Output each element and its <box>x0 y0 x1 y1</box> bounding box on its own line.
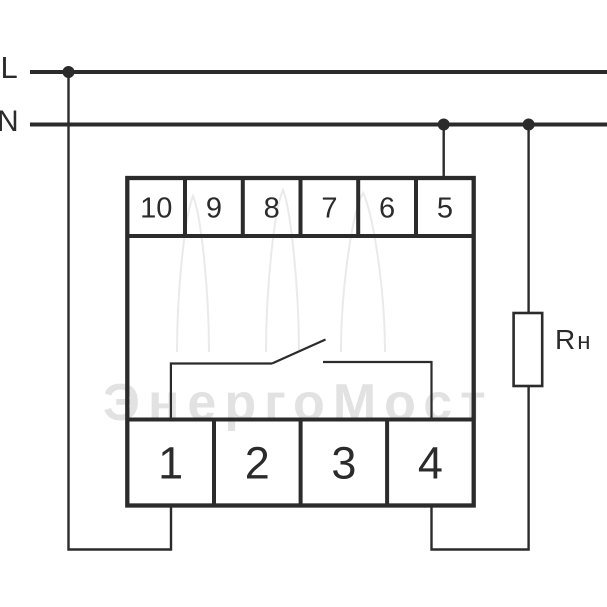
svg-text:7: 7 <box>321 193 337 225</box>
svg-text:6: 6 <box>379 193 395 225</box>
wire from N dot to resistor top <box>527 125 529 314</box>
svg-text:N: N <box>0 105 19 138</box>
wire from resistor bottom to terminal 4 <box>432 386 529 550</box>
watermark logo shapes <box>177 190 385 352</box>
wire N line <box>30 123 607 127</box>
relay contact right lead <box>323 362 432 420</box>
svg-text:Rн: Rн <box>555 324 593 355</box>
bottom terminal dividers <box>214 420 387 506</box>
device outline <box>127 178 473 506</box>
svg-text:10: 10 <box>140 193 172 225</box>
svg-text:8: 8 <box>264 193 280 225</box>
top terminal dividers <box>185 178 416 236</box>
svg-text:3: 3 <box>331 438 356 489</box>
svg-text:1: 1 <box>158 438 183 489</box>
svg-text:5: 5 <box>437 193 453 225</box>
relay contact blade <box>272 340 326 364</box>
svg-text:2: 2 <box>245 438 270 489</box>
svg-text:9: 9 <box>206 193 222 225</box>
relay contact left lead <box>171 364 272 420</box>
svg-text:4: 4 <box>418 438 443 489</box>
resistor Rн <box>514 313 543 386</box>
junction dot on N above resistor <box>523 119 535 131</box>
bottom terminal row top edge <box>127 418 473 422</box>
wire L line <box>30 70 607 74</box>
top terminal row bottom edge <box>127 234 473 238</box>
junction dot on L <box>63 66 75 78</box>
svg-text:ЭнергоМост: ЭнергоМост <box>103 374 494 432</box>
wire from N dot to terminal 5 <box>443 125 445 179</box>
junction dot on N above terminal 5 <box>438 119 450 131</box>
svg-text:L: L <box>1 50 18 85</box>
wire from L dot down left side <box>69 72 172 550</box>
